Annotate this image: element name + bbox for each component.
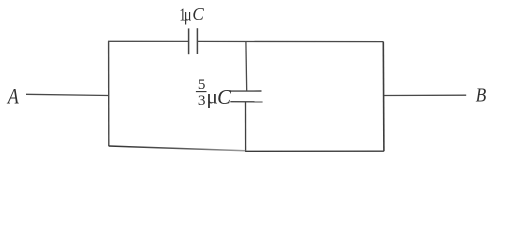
svg-text:μ: μ [184, 6, 192, 25]
wire A lead [26, 94, 109, 95]
wire top, right segment from C1 [197, 40, 383, 42]
wire bottom left (sloped) [109, 146, 246, 151]
capacitor C2 plates [229, 91, 263, 102]
svg-text:3: 3 [198, 92, 206, 109]
wire middle vertical lower (C2 bottom plate to bottom node) [245, 102, 247, 152]
capacitor C1 plates [189, 28, 198, 54]
wire middle vertical upper (node to C2 top plate) [245, 41, 248, 91]
svg-text:C: C [217, 85, 232, 109]
wire right vertical [382, 42, 385, 152]
wire left vertical [108, 41, 110, 146]
svg-text:C: C [192, 4, 204, 25]
wire top, left segment to C1 [108, 40, 189, 42]
wire B lead [384, 94, 466, 96]
value label 5/3 μC (capacitor C2) [196, 77, 232, 109]
value label 1μC (capacitor C1) [179, 4, 204, 25]
svg-text:B: B [476, 84, 487, 107]
svg-text:A: A [6, 85, 19, 109]
svg-text:5: 5 [198, 77, 206, 93]
wire bottom right [245, 150, 384, 152]
